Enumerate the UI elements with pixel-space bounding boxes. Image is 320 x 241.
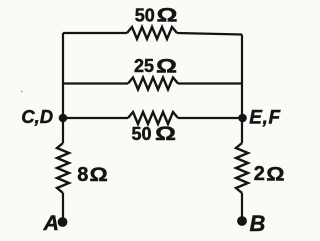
svg-text:A: A — [43, 211, 60, 235]
value label 2Ω — [254, 163, 285, 185]
svg-text:Ω: Ω — [155, 123, 176, 145]
resistor R4 8Ω — [57, 143, 69, 193]
svg-text:50: 50 — [135, 6, 155, 26]
svg-text:50: 50 — [132, 124, 152, 144]
value label 50Ω (top) — [135, 4, 178, 26]
value label 50Ω (below third branch) — [132, 123, 177, 145]
svg-text:E,F: E,F — [249, 107, 281, 128]
resistor R2 25Ω — [128, 78, 178, 90]
wire right rail to B — [241, 193, 243, 221]
resistor R1 50Ω top — [127, 27, 177, 39]
wire left rail to A — [62, 193, 64, 222]
svg-text:Ω: Ω — [266, 164, 284, 185]
wire left vertical rail — [62, 33, 64, 143]
wire middle branch right — [178, 82, 242, 84]
wire third branch right — [178, 117, 242, 119]
node E,F junction dot — [238, 114, 247, 123]
svg-text:Ω: Ω — [90, 165, 108, 186]
resistor R3 50Ω lower — [128, 112, 178, 124]
svg-text:C,D: C,D — [21, 106, 53, 127]
svg-text:Ω: Ω — [157, 4, 178, 26]
svg-text:8: 8 — [77, 164, 88, 186]
svg-text:B: B — [250, 211, 266, 236]
wire middle branch left — [63, 82, 128, 84]
svg-text:25: 25 — [134, 56, 154, 76]
scan speck — [21, 90, 23, 92]
node C,D junction dot — [59, 114, 68, 123]
wire top rail right segment — [177, 33, 242, 35]
value label 25Ω — [134, 55, 177, 77]
wire third branch left — [63, 117, 128, 119]
wire top rail left segment — [63, 32, 127, 34]
wire right vertical rail — [241, 35, 243, 144]
value label 8Ω — [77, 164, 108, 186]
svg-text:Ω: Ω — [156, 55, 177, 77]
node B terminal dot — [237, 216, 247, 226]
node A terminal dot — [58, 217, 68, 227]
resistor R5 2Ω — [236, 143, 248, 193]
svg-text:2: 2 — [254, 163, 265, 185]
